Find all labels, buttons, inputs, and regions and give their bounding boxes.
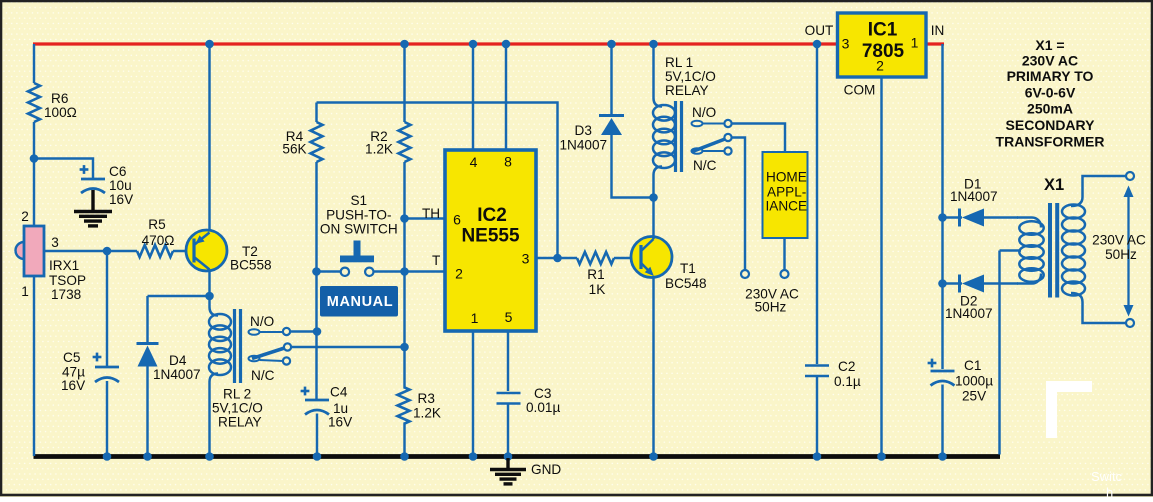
ground symbol GND [490,458,561,484]
svg-text:APPL-: APPL- [767,185,806,200]
relay RL2 core [235,309,241,383]
relay RL2 contacts N/O N/C [249,314,292,383]
node junction pin3/C5 [103,247,112,256]
svg-text:8: 8 [504,154,512,170]
svg-text:HOME: HOME [766,170,807,185]
transformer X1 secondary winding [1017,218,1044,284]
svg-text:10u: 10u [109,178,132,193]
wire IC2 pin5 to C3 [507,331,509,391]
svg-text:1N4007: 1N4007 [153,367,201,382]
svg-text:S1: S1 [350,193,367,208]
svg-text:1N4007: 1N4007 [950,189,998,204]
svg-text:16V: 16V [109,192,133,207]
svg-text:6: 6 [453,212,461,228]
resistor R2 1.2K [365,44,410,162]
mains arrow 230V AC 50Hz [1092,186,1146,317]
wire IC2 pin4 to rail [472,44,474,150]
node T1 emitter on rail [649,452,658,461]
node D4 on rail [143,452,152,461]
wire feedback output to R4 top [317,103,558,259]
svg-text:230V AC: 230V AC [1092,233,1146,248]
svg-text:470Ω: 470Ω [142,233,175,248]
label T [432,253,440,268]
svg-text:N/O: N/O [250,314,274,329]
wire D4 to ground rail [146,366,148,456]
svg-text:N/O: N/O [692,105,716,120]
resistor R5 [137,217,194,257]
svg-text:2: 2 [455,266,463,282]
svg-text:1.2K: 1.2K [365,142,393,157]
svg-text:2: 2 [21,209,29,224]
svg-text:1000µ: 1000µ [955,374,993,389]
node S1 left junction [312,267,321,276]
diode D1 1N4007 [943,177,1019,227]
relay RL1 coil [653,44,716,198]
resistor R4 56K [282,103,322,163]
capacitor C6 [80,164,134,207]
resistor R1 1K [577,252,641,297]
svg-text:IN: IN [931,23,945,38]
svg-text:3: 3 [842,36,850,52]
svg-text:5V,1C/O: 5V,1C/O [665,69,716,84]
svg-text:1: 1 [471,310,479,326]
wire R3 to rail [403,424,405,456]
svg-text:X1: X1 [1044,176,1064,194]
op-amp timer IC2 NE555 [445,150,536,331]
svg-text:C1: C1 [964,358,981,373]
svg-text:T1: T1 [680,261,696,276]
node COM on rail [877,452,886,461]
svg-text:2: 2 [876,58,884,74]
IR receiver IRX1 TSOP1738 [16,209,87,302]
transistor T2 BC558 [186,44,272,273]
node output junction [553,254,562,263]
wire node to D4 [148,296,210,342]
node D1 junction [938,213,947,222]
watermark white L mark [1046,381,1092,438]
svg-text:PRIMARY TO: PRIMARY TO [1007,68,1094,84]
capacitor C5 [61,251,119,456]
wire COM pin2 to ground rail [880,77,882,456]
relay RL1 contacts N/O N/C [692,105,732,173]
relay RL1 core [676,101,682,172]
svg-text:TRANSFORMER: TRANSFORMER [996,134,1105,150]
svg-text:MANUAL: MANUAL [327,294,393,310]
svg-text:4: 4 [470,154,478,170]
wire C2 to rail [816,376,818,456]
switch S1 push-to-on [317,193,398,276]
node C5 on rail [103,452,112,461]
node R3 on rail [400,452,409,461]
resistor R3 1.2K [398,387,441,424]
node OUT junction [813,40,822,49]
wire C3 to rail [507,404,509,457]
voltage regulator IC1 7805 [805,13,945,98]
node junction T2 collector / D4 [205,292,214,301]
relay RL2 coil [209,307,263,430]
wire R4 down through S1 to C4 [315,162,317,399]
transformer X1 primary winding [1062,205,1085,296]
capacitor C1 [928,358,994,456]
svg-text:TH: TH [422,206,440,221]
svg-text:230V AC: 230V AC [1022,53,1078,69]
svg-text:50Hz: 50Hz [1105,247,1137,262]
mains terminals 230V AC [741,270,799,315]
svg-text:PUSH-TO-: PUSH-TO- [326,207,391,222]
svg-text:RL 1: RL 1 [665,55,693,70]
node junction R6/C6 [30,154,39,163]
svg-text:RELAY: RELAY [218,415,262,430]
svg-text:C6: C6 [109,164,126,179]
node RL1 on rail [649,40,658,49]
MANUAL label box [320,286,398,317]
terminal primary bottom [1126,319,1134,327]
svg-text:RL 2: RL 2 [223,387,251,402]
svg-text:IRX1: IRX1 [49,258,79,273]
svg-text:R6: R6 [51,91,68,106]
svg-text:TSOP: TSOP [49,273,86,288]
svg-text:D3: D3 [575,123,592,138]
node pin1 on rail [469,452,478,461]
svg-text:25V: 25V [962,389,986,404]
node pin8 on rail [502,40,511,49]
node C4 on rail [313,452,322,461]
svg-text:C5: C5 [63,350,80,365]
node C2 on rail [813,452,822,461]
wire IN down rectifier bus [941,44,943,369]
wire IC2 pin8 to rail [505,44,507,150]
svg-text:250mA: 250mA [1027,101,1073,117]
ground below C6 [74,190,112,226]
svg-text:BC548: BC548 [665,276,707,291]
svg-text:GND: GND [531,462,561,477]
wire RL2 N/O to S1 column [290,330,317,332]
svg-text:1N4007: 1N4007 [560,138,608,153]
node C3 on rail [504,452,513,461]
svg-text:1738: 1738 [51,287,81,302]
wire TSOP pin3 [44,250,137,252]
svg-text:1: 1 [911,35,919,51]
wire primary top lead [1071,176,1126,206]
node T2 emitter on rail [205,40,214,49]
svg-text:SECONDARY: SECONDARY [1006,117,1096,133]
diode D2 1N4007 [943,275,1019,322]
svg-text:N/C: N/C [693,158,717,173]
svg-text:X1 =: X1 = [1035,37,1064,53]
node common junction on R3 column [400,343,409,352]
wire RL2 coil to ground rail [208,382,210,456]
wire ground rail [34,454,1001,459]
svg-text:5: 5 [505,309,513,325]
node RL2 on rail [205,452,214,461]
wire node to C6 [34,159,93,179]
wire +5V red rail [33,42,944,45]
diode D4 1N4007 [137,344,201,383]
wire T1 collector up [652,198,654,240]
svg-text:h: h [1106,485,1113,497]
svg-text:16V: 16V [61,378,85,393]
watermark text [1091,469,1123,500]
wire S1 to IC2 pin2 [374,270,446,272]
wire TSOP pin1 to ground rail [33,276,35,456]
svg-text:56K: 56K [282,142,306,157]
wire primary bottom lead [1071,293,1126,323]
node T junction [400,267,409,276]
capacitor C4 [301,385,353,457]
svg-text:D4: D4 [169,353,187,368]
terminal primary top [1126,172,1134,180]
svg-text:IANCE: IANCE [766,199,808,214]
capacitor C2 [805,359,861,389]
wire OUT to C2 [816,44,818,364]
node D2 junction [938,279,947,288]
svg-text:3: 3 [51,235,59,250]
svg-text:1N4007: 1N4007 [945,306,993,321]
svg-text:IC1: IC1 [868,20,898,41]
node TH junction [400,214,409,223]
svg-text:1.2K: 1.2K [413,406,441,421]
diode D3 1N4007 [560,44,654,198]
svg-text:C2: C2 [838,359,855,374]
node pin4 on rail [469,40,478,49]
wire RL2 common to R3 column [291,346,405,348]
svg-text:IC2: IC2 [477,205,507,226]
transistor T1 BC548 [631,237,707,292]
wire TH to IC2 pin6 [405,206,446,221]
svg-text:RELAY: RELAY [665,83,709,98]
svg-text:R3: R3 [418,391,435,406]
wire appliance to mains terminal [783,238,785,270]
wire R2 to TH node and down [403,162,405,387]
svg-text:Switc: Switc [1091,469,1123,484]
resistor R6 [28,83,77,122]
svg-text:NE555: NE555 [461,226,520,247]
capacitor C3 [497,386,561,415]
svg-text:C3: C3 [534,386,551,401]
node N/O junction [313,327,322,336]
node D3/coil/collector junction [649,193,658,202]
svg-text:0.1µ: 0.1µ [834,374,861,389]
svg-text:1K: 1K [589,282,606,297]
home appliance box [763,152,808,238]
svg-text:N/C: N/C [251,368,275,383]
wire RL1 common to mains terminal [732,138,746,271]
wire IC2 pin3 output [537,257,578,259]
wire T2 collector down [208,270,210,308]
svg-text:50Hz: 50Hz [755,300,787,315]
svg-text:0.01µ: 0.01µ [526,400,560,415]
svg-text:3: 3 [522,251,530,267]
svg-text:COM: COM [844,83,876,98]
transformer note text [996,37,1105,150]
transformer X1 label [1044,176,1064,194]
wire IC2 pin1 to ground rail [472,331,474,456]
svg-text:ON SWITCH: ON SWITCH [320,222,398,237]
svg-text:R5: R5 [148,217,165,232]
svg-text:R1: R1 [587,267,604,282]
node R2 on rail [400,40,409,49]
wire RL1 N/O to appliance [732,124,786,153]
svg-text:16V: 16V [328,415,352,430]
wire rail to R6 and TSOP pin2 [33,44,35,226]
svg-text:BC558: BC558 [230,258,272,273]
svg-text:5V,1C/O: 5V,1C/O [212,401,263,416]
svg-text:6V-0-6V: 6V-0-6V [1025,85,1076,101]
svg-text:C4: C4 [330,385,348,400]
svg-text:T: T [432,253,440,268]
wire T1 emitter to ground rail [652,276,654,456]
wire center tap [1000,251,1022,455]
svg-text:OUT: OUT [805,23,834,38]
node C1 on rail [938,452,947,461]
transformer X1 core [1050,203,1057,298]
svg-text:1: 1 [21,284,29,299]
svg-text:100Ω: 100Ω [44,105,77,120]
node D3 on rail [607,40,616,49]
